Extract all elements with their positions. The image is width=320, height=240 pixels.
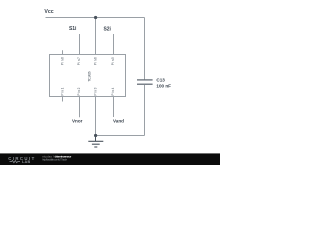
svg-text:Pin3: Pin3	[94, 87, 98, 95]
ground	[88, 136, 103, 148]
svg-text:Pin1: Pin1	[61, 87, 65, 95]
svg-text:S2i: S2i	[103, 27, 111, 33]
svg-text:Pin7: Pin7	[77, 57, 81, 65]
svg-text:Pin5: Pin5	[111, 57, 115, 65]
junction at ground	[94, 134, 97, 137]
footer bar	[0, 153, 220, 154]
svg-text:TC1426: TC1426	[87, 71, 91, 82]
svg-text:Vand: Vand	[113, 119, 124, 124]
wire capacitor bottom lead	[144, 85, 146, 136]
op-amp U1 TC1426 body	[50, 55, 126, 97]
junction on Vcc rail	[94, 16, 97, 19]
svg-text:Pin6: Pin6	[94, 57, 98, 65]
wire S2i to pin5	[113, 34, 115, 55]
svg-text:S1i: S1i	[69, 26, 77, 32]
wire pin3 to ground	[95, 97, 97, 136]
wire S1i to pin7	[79, 34, 81, 55]
svg-text:Pin2: Pin2	[77, 87, 81, 95]
wire Vcc to pin6	[95, 18, 97, 55]
wire pin4 to Vand	[113, 97, 115, 118]
svg-text:100 nF: 100 nF	[156, 83, 171, 88]
svg-text:http://circuitlab.com/c77acde: http://circuitlab.com/c77acde	[42, 158, 67, 162]
wire pin2 to Vnor	[79, 97, 81, 118]
svg-text:Vnor: Vnor	[72, 119, 83, 124]
svg-text:LAB: LAB	[22, 160, 31, 164]
svg-text:C13: C13	[156, 77, 165, 82]
svg-text:Pin4: Pin4	[111, 87, 115, 95]
wire bottom net to capacitor	[96, 135, 145, 137]
capacitor C13 plates	[137, 80, 153, 84]
svg-text:Vcc: Vcc	[44, 9, 53, 15]
wire Vcc rail	[46, 17, 145, 19]
wire pin1 stub	[62, 97, 64, 102]
CircuitLab logo zigzag	[10, 161, 20, 163]
wire pin8 stub	[62, 50, 64, 54]
wire capacitor top lead	[144, 18, 146, 80]
svg-text:Pin8: Pin8	[61, 57, 65, 65]
